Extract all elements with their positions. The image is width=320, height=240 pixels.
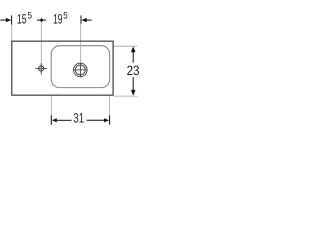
svg-text:5: 5 — [63, 10, 67, 21]
svg-text:19: 19 — [53, 12, 63, 27]
svg-text:15: 15 — [17, 12, 27, 27]
svg-text:31: 31 — [73, 110, 84, 125]
svg-text:23: 23 — [127, 63, 140, 78]
svg-text:5: 5 — [28, 10, 33, 21]
